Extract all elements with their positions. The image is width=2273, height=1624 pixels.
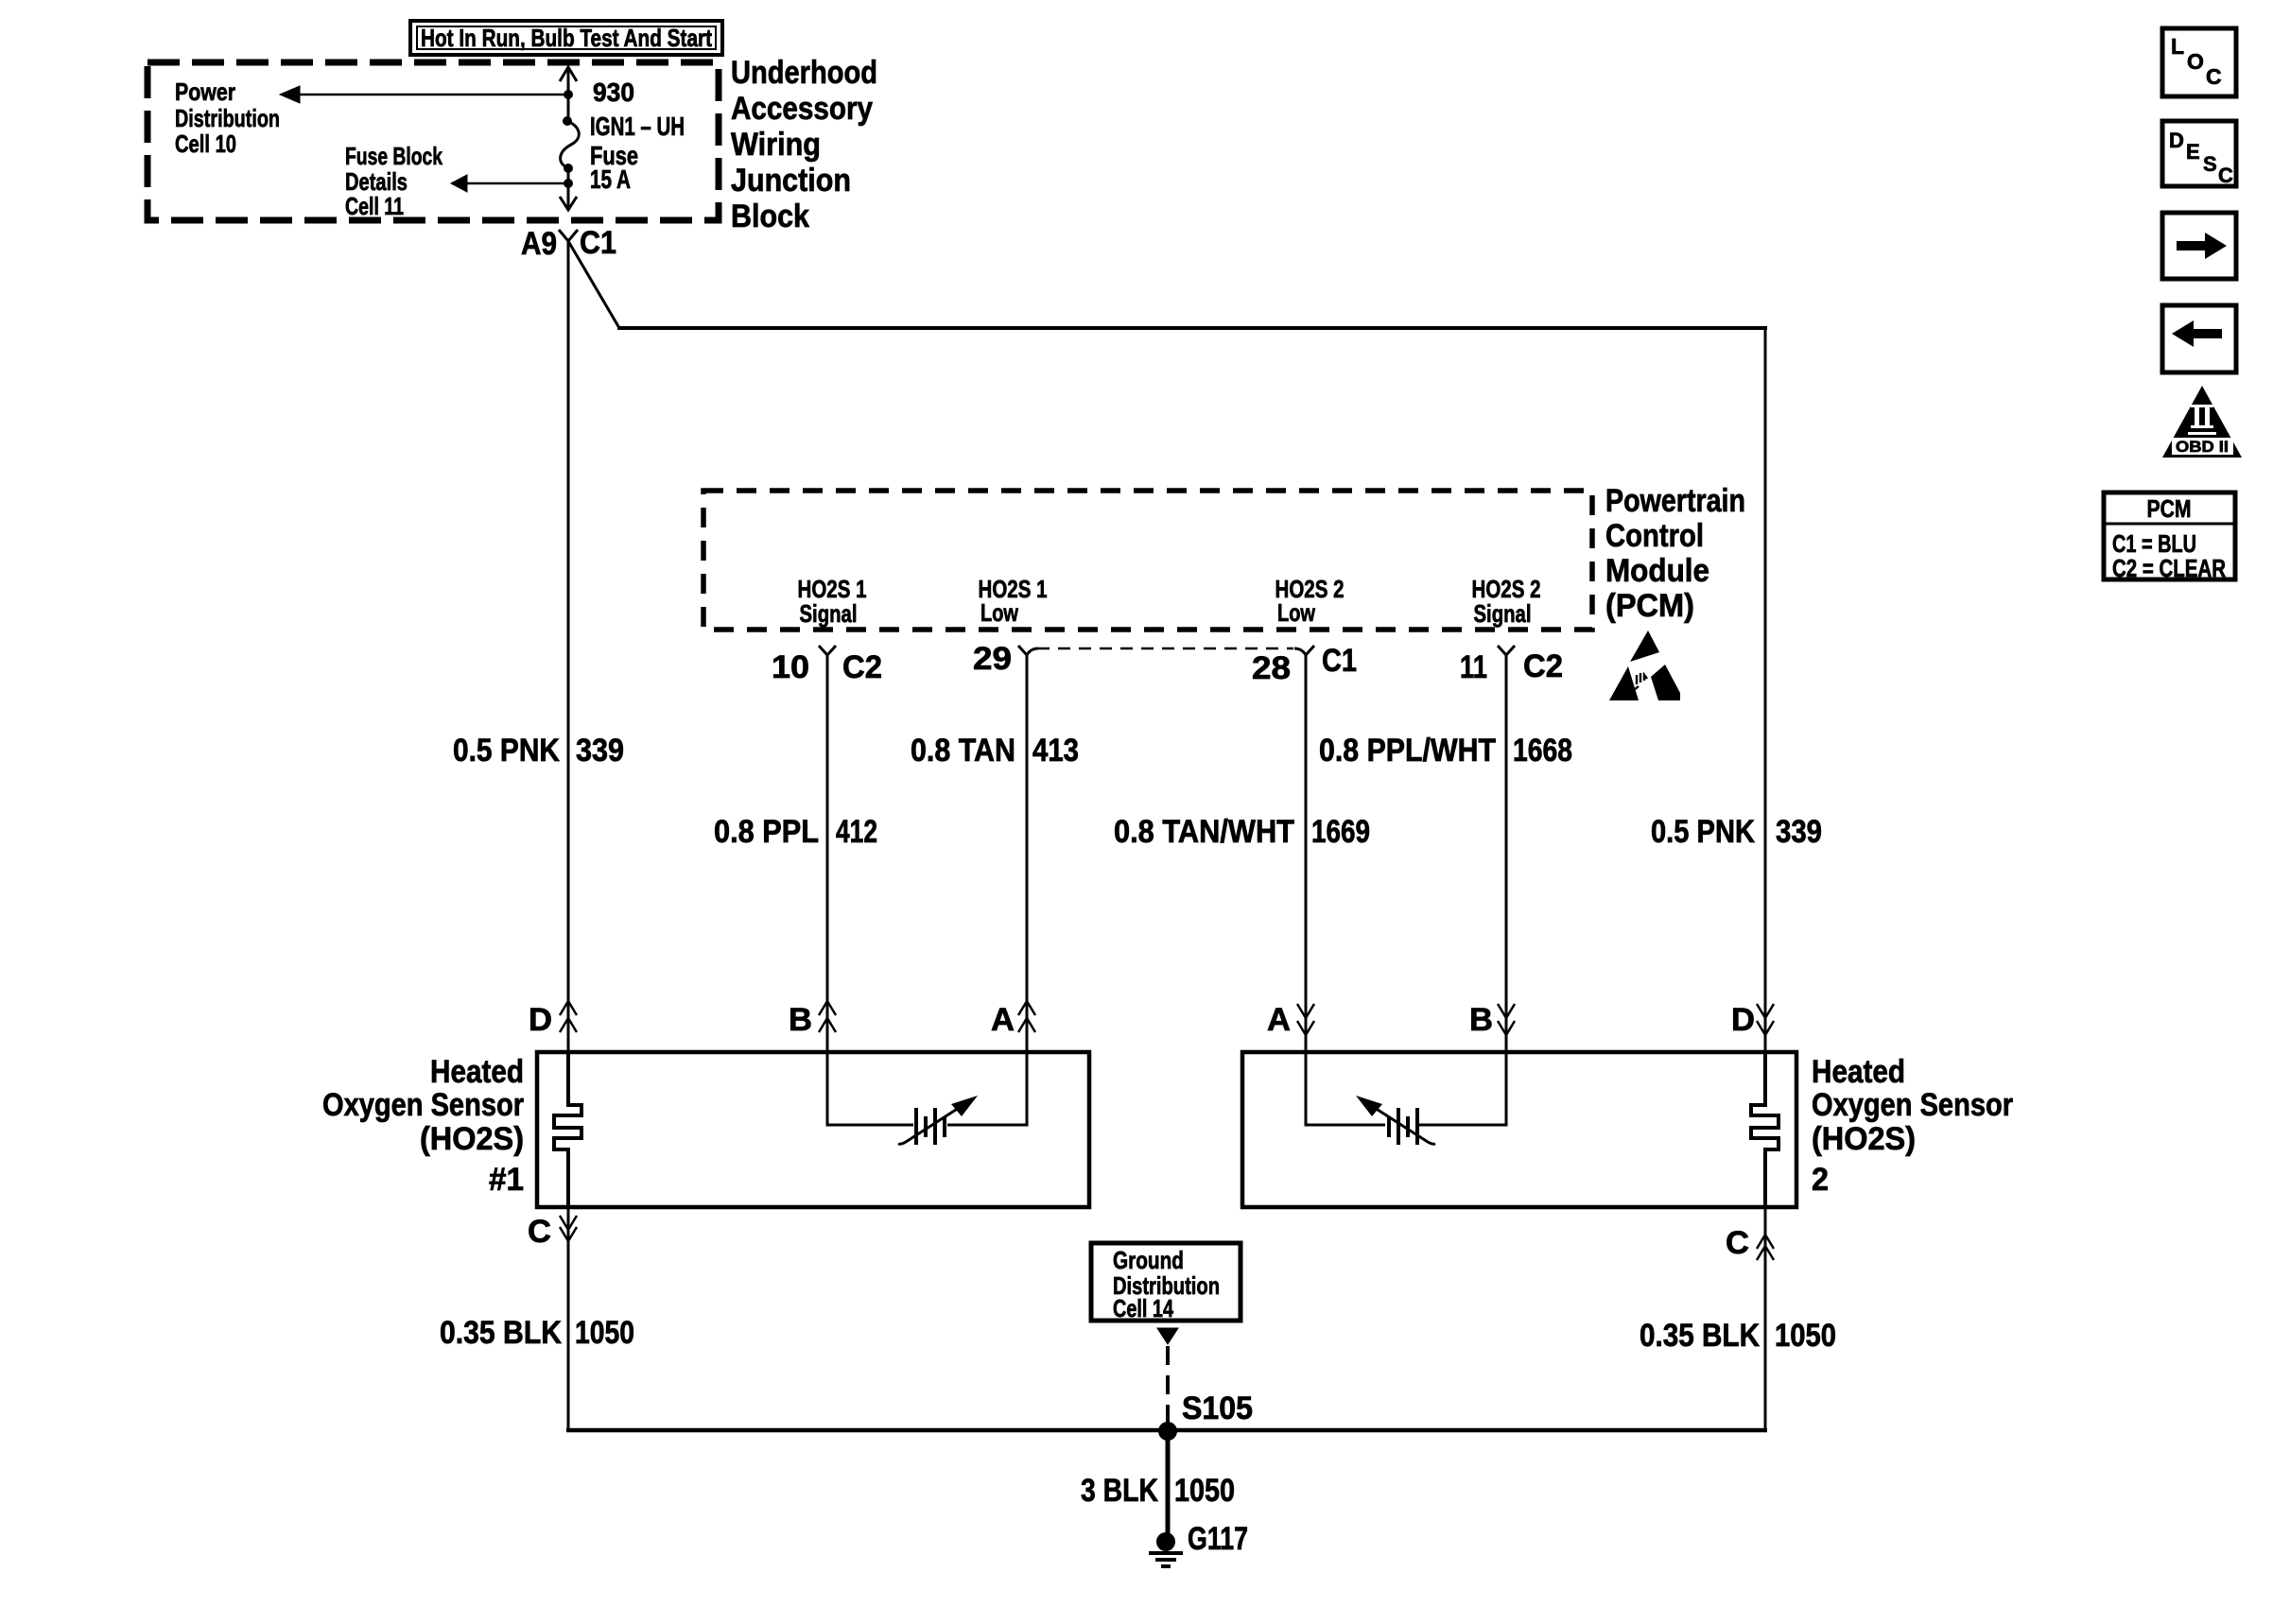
svg-text:1668: 1668: [1513, 733, 1572, 769]
svg-text:A9: A9: [521, 226, 557, 262]
svg-text:Module: Module: [1605, 553, 1709, 589]
svg-text:C2: C2: [842, 649, 882, 685]
svg-text:(HO2S): (HO2S): [1812, 1121, 1916, 1157]
junction dot to power distribution: [564, 90, 573, 99]
splice S105: [1158, 1422, 1177, 1441]
legend back arrow box: [2162, 305, 2236, 372]
wire ignition feed lower: [567, 168, 570, 208]
svg-text:1050: 1050: [1174, 1473, 1235, 1509]
svg-text:Oxygen Sensor: Oxygen Sensor: [322, 1087, 524, 1123]
svg-text:S105: S105: [1182, 1391, 1253, 1426]
svg-text:Underhood: Underhood: [731, 55, 877, 91]
arrowhead power distribution: [280, 86, 300, 103]
svg-text:10: 10: [772, 649, 809, 685]
svg-text:PCM: PCM: [2147, 494, 2192, 523]
svg-text:D: D: [1731, 1002, 1755, 1038]
svg-text:412: 412: [836, 814, 877, 850]
svg-text:Junction: Junction: [731, 163, 851, 199]
arrow up into hot feed: [560, 67, 577, 81]
legend PCM connector colors box: [2104, 492, 2235, 582]
wire to power distribution arrow: [300, 94, 568, 96]
svg-text:Fuse Block: Fuse Block: [345, 142, 442, 170]
legend back arrow: [2172, 320, 2222, 347]
svg-text:A: A: [1267, 1002, 1291, 1038]
pin 29 connector fork: [1018, 646, 1038, 655]
svg-text:Wiring: Wiring: [731, 127, 821, 163]
svg-text:G117: G117: [1188, 1521, 1248, 1557]
svg-text:B: B: [1469, 1002, 1493, 1038]
pin B arrow right sensor: [1498, 1004, 1515, 1018]
svg-text:Ground: Ground: [1113, 1246, 1184, 1274]
ground G117 terminal: [1156, 1532, 1175, 1551]
svg-text:15 A: 15 A: [590, 164, 631, 194]
pin A arrow right sensor: [1297, 1004, 1314, 1018]
svg-text:0.8 TAN: 0.8 TAN: [911, 733, 1015, 769]
pin C arrow left sensor: [560, 1216, 577, 1230]
svg-text:2: 2: [1812, 1162, 1829, 1198]
connector C1 symbol: [559, 230, 578, 241]
pin A arrow left sensor: [1018, 1001, 1035, 1015]
wire 0.8 PPL 412 stem: [826, 655, 829, 1052]
svg-text:Signal: Signal: [800, 599, 858, 628]
svg-text:Hot In Run, Bulb Test And Star: Hot In Run, Bulb Test And Start: [421, 24, 712, 52]
svg-text:0.35 BLK: 0.35 BLK: [440, 1315, 562, 1351]
heater element HO2S2: [1751, 1052, 1778, 1207]
legend LOC box: [2162, 28, 2236, 96]
wire 0.8 TAN/WHT 1669 stem: [1305, 655, 1308, 1052]
power feed label box outer: [410, 21, 722, 55]
underhood accessory wiring junction block box: [147, 62, 719, 220]
wire 0.5 PNK 339 left vertical: [567, 241, 570, 1052]
ground bus wire: [566, 1428, 1767, 1433]
svg-text:C: C: [2206, 64, 2222, 89]
svg-text:D: D: [529, 1002, 552, 1038]
svg-text:S: S: [2203, 152, 2217, 176]
power feed label box inner: [417, 26, 716, 49]
svg-text:1050: 1050: [1775, 1318, 1836, 1354]
arrow down to junction block edge: [560, 197, 577, 210]
svg-text:Oxygen Sensor: Oxygen Sensor: [1812, 1087, 2013, 1123]
heater element HO2S1: [554, 1052, 581, 1207]
legend OBD II triangle: [2162, 386, 2242, 458]
svg-text:Cell 14: Cell 14: [1113, 1294, 1173, 1322]
svg-text:Block: Block: [731, 199, 809, 234]
pin C arrow right sensor: [1757, 1235, 1774, 1249]
svg-text:1669: 1669: [1311, 814, 1370, 850]
fuse bottom terminal dot: [564, 164, 573, 173]
legend forward arrow box: [2162, 213, 2236, 279]
svg-text:#1: #1: [489, 1162, 524, 1198]
wire ignition feed upper: [567, 69, 570, 121]
pin B arrow left sensor: [819, 1001, 836, 1015]
svg-text:C: C: [1726, 1225, 1749, 1261]
ESD sensitive device symbol: [1609, 631, 1680, 700]
svg-text:A: A: [991, 1002, 1015, 1038]
svg-text:Control: Control: [1605, 518, 1704, 554]
svg-text:Low: Low: [980, 598, 1019, 627]
svg-text:IGN1 – UH: IGN1 – UH: [590, 112, 685, 141]
svg-text:E: E: [2186, 140, 2200, 164]
heated oxygen sensor 1 box: [537, 1052, 1089, 1207]
svg-text:930: 930: [593, 78, 634, 107]
legend forward arrow: [2177, 233, 2227, 259]
svg-text:1050: 1050: [575, 1315, 634, 1351]
svg-text:0.8 TAN/WHT: 0.8 TAN/WHT: [1114, 814, 1294, 850]
svg-text:0.5 PNK: 0.5 PNK: [1651, 814, 1755, 850]
sensing element variable resistor HO2S2: [1306, 1052, 1506, 1145]
wire to fuse block details arrow: [467, 182, 568, 185]
svg-text:Cell 11: Cell 11: [345, 192, 404, 220]
wire 3 BLK 1050 ground stem: [1166, 1431, 1171, 1542]
wire branch diagonal to right run: [568, 241, 619, 328]
svg-text:339: 339: [576, 733, 624, 769]
svg-text:0.35 BLK: 0.35 BLK: [1640, 1318, 1760, 1354]
svg-text:O: O: [2187, 49, 2204, 74]
svg-text:0.8 PPL: 0.8 PPL: [714, 814, 819, 850]
ground distribution ref box: [1091, 1243, 1241, 1321]
svg-text:Heated: Heated: [430, 1054, 524, 1090]
legend LOC letters: [2171, 34, 2222, 89]
pin 11 connector fork: [1498, 646, 1515, 655]
dashed wire pin29 to pin28: [1037, 648, 1293, 650]
svg-text:Signal: Signal: [1474, 599, 1532, 628]
svg-text:C: C: [2218, 164, 2233, 187]
svg-text:Power: Power: [175, 78, 235, 106]
svg-text:C1: C1: [1322, 643, 1357, 679]
svg-text:C: C: [528, 1214, 551, 1250]
ground symbol G117: [1149, 1553, 1183, 1566]
svg-text:(PCM): (PCM): [1605, 588, 1694, 624]
legend DESC letters: [2169, 129, 2233, 187]
powertrain control module PCM box: [703, 491, 1592, 630]
dashed wire to S105: [1166, 1346, 1170, 1425]
svg-text:Powertrain: Powertrain: [1605, 483, 1745, 519]
svg-text:Distribution: Distribution: [175, 104, 280, 132]
svg-text:11: 11: [1460, 649, 1487, 685]
svg-text:L: L: [2171, 34, 2184, 59]
svg-text:413: 413: [1032, 733, 1079, 769]
svg-text:Low: Low: [1277, 598, 1316, 627]
svg-text:28: 28: [1252, 650, 1291, 686]
svg-text:C1: C1: [580, 225, 616, 261]
fuse top terminal dot: [563, 116, 572, 126]
svg-text:Accessory: Accessory: [731, 91, 873, 127]
svg-text:3 BLK: 3 BLK: [1081, 1473, 1158, 1509]
wire 0.35 BLK 1050 right: [1764, 1207, 1767, 1432]
ground distribution pointer triangle: [1157, 1328, 1178, 1344]
svg-text:B: B: [789, 1002, 812, 1038]
svg-text:Cell 10: Cell 10: [175, 130, 236, 158]
pin D arrow right sensor: [1757, 1004, 1774, 1018]
pin 28 connector fork: [1294, 646, 1314, 655]
svg-text:(HO2S): (HO2S): [420, 1121, 524, 1157]
junction dot to fuse block details: [564, 179, 573, 188]
fuse IGN1-UH element: [561, 121, 580, 168]
svg-text:339: 339: [1776, 814, 1822, 850]
pin 10 connector fork: [819, 646, 836, 655]
svg-text:C2 = CLEAR: C2 = CLEAR: [2112, 554, 2226, 582]
wire 0.8 PPL/WHT 1668 stem: [1505, 655, 1508, 1052]
legend DESC box: [2162, 121, 2236, 186]
svg-text:29: 29: [973, 641, 1012, 677]
svg-text:OBD II: OBD II: [2176, 438, 2229, 456]
svg-text:0.8 PPL/WHT: 0.8 PPL/WHT: [1319, 733, 1496, 769]
wire 0.5 PNK 339 right vertical: [1764, 326, 1767, 1052]
svg-text:D: D: [2169, 129, 2184, 152]
wire 0.8 TAN 413 stem: [1026, 655, 1029, 1052]
svg-text:C2: C2: [1523, 648, 1563, 684]
arrowhead fuse block details: [451, 175, 467, 192]
svg-text:0.5 PNK: 0.5 PNK: [453, 733, 560, 769]
wire 0.35 BLK 1050 left: [567, 1207, 570, 1432]
wire 0.5 PNK 339 top horizontal run: [617, 326, 1767, 330]
svg-text:Heated: Heated: [1812, 1054, 1905, 1090]
pin D arrow left sensor: [560, 1001, 577, 1015]
heated oxygen sensor 2 box: [1242, 1052, 1796, 1207]
sensing element variable resistor HO2S1: [827, 1052, 1027, 1145]
